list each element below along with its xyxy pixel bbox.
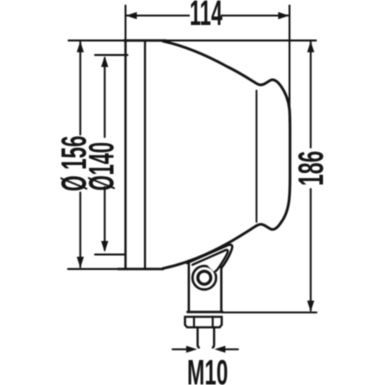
arrowhead dia156 top — [77, 41, 84, 52]
svg-text:186: 186 — [293, 151, 332, 186]
dim line dia156 bottom segment — [79, 193, 81, 268]
extension line 114 right — [289, 6, 291, 123]
bracket ear outer edge — [187, 245, 232, 268]
nut facet left — [193, 317, 195, 328]
arrowhead 114 left — [126, 12, 137, 19]
dim line 114 right segment — [222, 15, 289, 17]
extension line bottom-left / lamp bottom edge — [68, 268, 120, 270]
extension line top (y=40.5) — [69, 40, 317, 42]
arrowhead dia156 bottom — [77, 257, 84, 268]
lamp rim line — [144, 41, 146, 269]
nut outline — [185, 317, 222, 328]
dim line 186 bottom segment — [310, 189, 312, 311]
lamp bottom rim edge thick — [118, 268, 163, 270]
dim line dia156 top segment — [79, 42, 81, 135]
stud left edge — [198, 327, 199, 347]
bracket pivot hole — [198, 271, 211, 284]
arrowhead M10 left — [186, 346, 197, 353]
dim line M10 right — [226, 348, 239, 350]
stud right edge — [213, 327, 214, 347]
arrowhead dia140 top — [101, 56, 108, 67]
arrowhead 114 right — [278, 12, 289, 19]
arrowhead M10 right — [214, 346, 225, 353]
back cap seam line — [256, 91, 258, 223]
lamp top rim edge thick — [124, 39, 166, 41]
bracket stem bottom — [188, 311, 223, 313]
extension line 186 bottom — [223, 311, 317, 313]
lamp front face — [124, 41, 126, 269]
arrowhead dia140 bottom — [101, 241, 108, 252]
lamp body outline top curve, back, bottom curve — [163, 41, 290, 268]
bracket ear white fill — [197, 245, 233, 274]
arrowhead 186 bottom — [307, 301, 314, 312]
extension line dia140 top — [95, 54, 128, 56]
bracket ear inner line — [193, 250, 228, 272]
extension line dia140 bottom — [95, 254, 124, 256]
dim line 114 left segment — [127, 15, 190, 17]
svg-text:M10: M10 — [187, 354, 228, 385]
dim line M10 left — [173, 348, 187, 350]
arrowhead 186 top — [307, 41, 314, 52]
bracket boss circle — [193, 266, 217, 290]
dim line 186 top segment — [310, 42, 312, 148]
svg-text:114: 114 — [190, 0, 223, 34]
extension line 114 left (above lamp) — [125, 6, 127, 41]
dim line dia140 top segment — [104, 58, 106, 137]
bracket stem right edge — [220, 267, 222, 312]
svg-text:Ø140: Ø140 — [83, 142, 122, 191]
dim line dia140 bottom segment — [104, 187, 106, 250]
bracket stem left edge — [188, 261, 190, 312]
nut facet right — [212, 317, 214, 328]
